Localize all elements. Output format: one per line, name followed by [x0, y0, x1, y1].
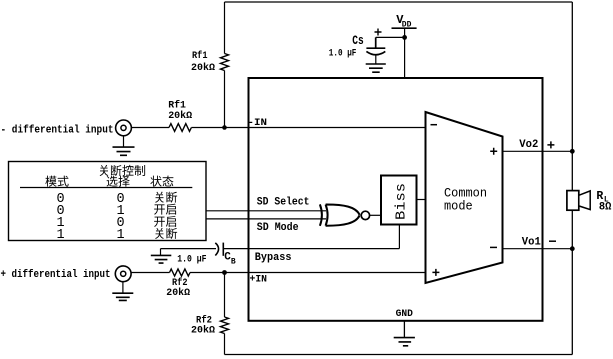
- wire Vo1: [503, 248, 573, 250]
- wire VDD to Cs: [376, 36, 405, 38]
- pin -IN: [248, 117, 268, 129]
- wire ground to CB: [161, 248, 217, 250]
- label SD Select: [257, 196, 310, 208]
- wire Biss to Bypass: [398, 225, 400, 249]
- node Vo2 junction: [570, 149, 575, 154]
- polarity + (Vo2): [547, 141, 554, 148]
- capacitor CB: [215, 243, 223, 256]
- label SD Mode: [257, 222, 299, 234]
- wire right output rail: [571, 2, 573, 355]
- label Rf2 (input resistor): [166, 277, 190, 299]
- label RL: [596, 190, 611, 214]
- svg-text:- differential input: - differential input: [1, 124, 114, 136]
- svg-text:Cs: Cs: [352, 33, 364, 48]
- ground (CB): [151, 249, 172, 264]
- pin Bypass: [255, 252, 292, 264]
- wire gate output to Biss: [369, 214, 381, 216]
- ground (Cs): [366, 64, 386, 72]
- resistor Rf1 (input, horizontal): [169, 124, 191, 132]
- label Cs: [352, 33, 364, 48]
- table header rule: [20, 187, 192, 189]
- wire GND stub: [403, 321, 405, 338]
- node +IN junction: [222, 270, 227, 275]
- label positive differential input: [1, 269, 111, 281]
- table header: [45, 165, 173, 187]
- wire VDD to IC: [404, 28, 406, 78]
- wire J1 to Rf1: [131, 127, 169, 129]
- wire Biss to common-mode amp: [417, 199, 426, 201]
- wire SD Select: [206, 210, 326, 212]
- wire J2 to Rf2: [131, 272, 169, 274]
- pin - (negative output): [490, 246, 497, 248]
- node -IN junction: [222, 125, 227, 130]
- connector J2 (+input jack): [115, 266, 131, 282]
- svg-text:Vo1: Vo1: [522, 237, 541, 249]
- wire -IN line: [191, 127, 425, 129]
- svg-text:B: B: [231, 257, 236, 266]
- gate U1 XNOR: [320, 204, 370, 225]
- svg-text:20kΩ: 20kΩ: [168, 110, 192, 122]
- pin Vo2: [519, 139, 538, 151]
- node Vo1 junction: [570, 246, 575, 251]
- ground (J2): [112, 282, 133, 301]
- IC block outline: [249, 78, 543, 321]
- svg-text:mode: mode: [444, 200, 473, 214]
- table shutdown control box: [9, 162, 207, 241]
- svg-text:GND: GND: [396, 308, 413, 320]
- resistor Rf2 (input, horizontal): [170, 269, 191, 276]
- pin GND: [396, 308, 413, 320]
- block Biss: [381, 176, 417, 225]
- polarity - (Vo1): [549, 240, 556, 242]
- svg-text:+IN: +IN: [250, 274, 268, 286]
- wire bottom feedback rail: [225, 354, 573, 356]
- node VDD junction: [402, 35, 407, 40]
- svg-text:20kΩ: 20kΩ: [191, 324, 215, 336]
- svg-text:Rf1: Rf1: [168, 99, 186, 111]
- svg-text:Biss: Biss: [395, 183, 410, 220]
- pin +IN: [250, 274, 268, 286]
- label Rf1 (vertical resistor): [191, 50, 215, 74]
- svg-text:1: 1: [56, 228, 64, 243]
- capacitor Cs: [366, 37, 385, 64]
- svg-text:SD Mode: SD Mode: [257, 222, 299, 234]
- svg-text:-IN: -IN: [248, 117, 268, 129]
- pin + (positive output): [490, 148, 497, 155]
- resistor Rf2 (feedback, vertical): [221, 317, 229, 334]
- svg-text:20kΩ: 20kΩ: [191, 62, 215, 74]
- svg-text:Vo2: Vo2: [519, 139, 538, 151]
- svg-text:SD Select: SD Select: [257, 196, 310, 208]
- polarity + (Cs): [375, 29, 382, 36]
- label Rf2 (vertical resistor): [191, 315, 215, 337]
- connector J1 (-input jack): [116, 120, 132, 136]
- svg-text:1: 1: [116, 228, 124, 243]
- ground (J1): [113, 136, 135, 156]
- wire top feedback rail: [225, 1, 573, 3]
- svg-text:Rf1: Rf1: [192, 50, 208, 62]
- wire Rf2 vertical branch: [224, 273, 226, 355]
- wire Rf1 vertical branch: [224, 2, 226, 128]
- svg-text:+ differential input: + differential input: [1, 269, 111, 281]
- label Rf1 (input resistor): [168, 99, 192, 122]
- label CB value: [177, 254, 206, 265]
- svg-text:20kΩ: 20kΩ: [166, 287, 190, 299]
- resistor Rf1 (feedback, vertical): [221, 54, 229, 71]
- label CB: [224, 251, 236, 266]
- svg-text:8Ω: 8Ω: [599, 202, 612, 214]
- pin - (inverting input): [431, 124, 438, 126]
- pin Vo1: [522, 237, 541, 249]
- op-amp U2 common mode: [426, 112, 503, 283]
- svg-text:Common: Common: [444, 186, 487, 200]
- power VDD: [392, 13, 417, 30]
- svg-text:1.0 µF: 1.0 µF: [177, 254, 206, 265]
- svg-text:1.0 µF: 1.0 µF: [329, 49, 357, 60]
- label Cs value: [329, 49, 357, 60]
- pin + (non-inverting input): [432, 269, 439, 276]
- ground (GND pin): [394, 338, 415, 346]
- svg-text:Bypass: Bypass: [255, 252, 292, 264]
- wire Bypass line: [223, 248, 399, 250]
- wire Vo2: [503, 150, 573, 152]
- speaker RL: [567, 191, 590, 211]
- label negative differential input: [1, 124, 114, 136]
- table rows: [56, 192, 177, 244]
- wire +IN line: [190, 272, 426, 274]
- wire SD Mode: [206, 218, 326, 220]
